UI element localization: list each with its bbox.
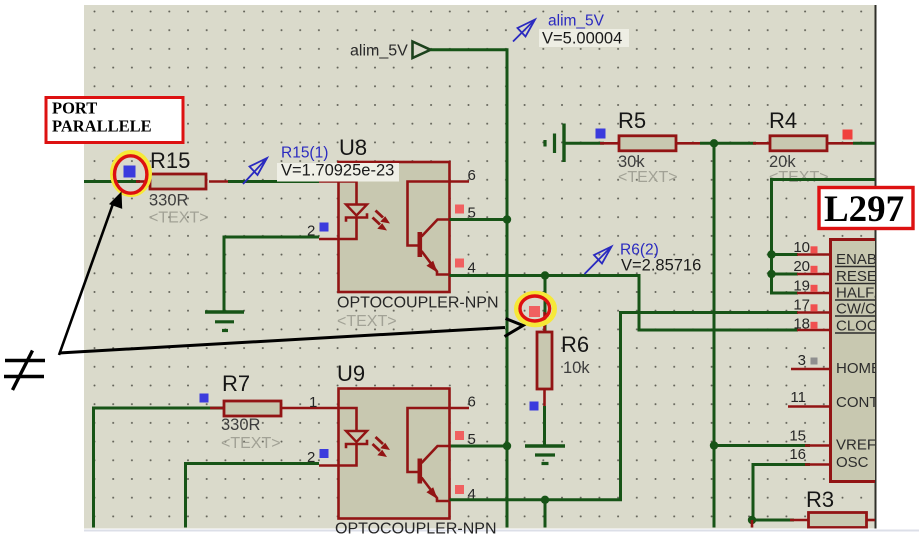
svg-text:11: 11 xyxy=(790,389,806,406)
probe arrow R15(1) xyxy=(243,158,267,184)
resistor R7 xyxy=(200,371,320,452)
pin stub below R3 node xyxy=(751,520,754,528)
svg-text:10: 10 xyxy=(793,239,810,256)
annotation circle at R6 pin xyxy=(517,293,555,325)
svg-text:VREF: VREF xyxy=(836,437,876,454)
resistor R5 xyxy=(596,108,701,186)
junction pin10 xyxy=(767,250,775,258)
svg-text:R4: R4 xyxy=(769,108,797,133)
junction pin20 xyxy=(767,270,775,278)
junction U8 pin5 / alim vertical xyxy=(503,215,511,223)
probe arrow alim_5V xyxy=(513,20,535,42)
svg-text:330R: 330R xyxy=(221,416,261,434)
svg-text:R5: R5 xyxy=(618,108,646,133)
svg-text:19: 19 xyxy=(793,278,810,295)
svg-text:alim_5V: alim_5V xyxy=(350,43,408,60)
junction R5/R4 xyxy=(710,139,718,147)
wire bottom stub xyxy=(544,500,547,528)
svg-text:PORT: PORT xyxy=(52,99,97,118)
annotation box L297 xyxy=(819,188,913,231)
resistor R4 xyxy=(753,108,853,186)
resistor R3 xyxy=(790,487,875,528)
svg-text:OPTOCOUPLER-NPN: OPTOCOUPLER-NPN xyxy=(337,295,499,312)
ground-left at R5 xyxy=(545,124,564,163)
optocoupler U9 xyxy=(307,389,476,519)
svg-text:OSC: OSC xyxy=(836,454,869,471)
wire pin20 branch xyxy=(772,273,799,276)
annotation box PORT PARALLELE xyxy=(46,98,183,143)
svg-text:U8: U8 xyxy=(339,135,367,160)
wire R7 left xyxy=(94,408,225,528)
svg-text:R15: R15 xyxy=(150,148,190,173)
svg-text:3: 3 xyxy=(798,352,806,369)
wire alim_5V top horizontal xyxy=(431,48,509,51)
svg-text:10k: 10k xyxy=(563,359,590,377)
junction VREF xyxy=(710,441,718,449)
resistor R6 xyxy=(529,306,590,412)
svg-text:<TEXT>: <TEXT> xyxy=(337,313,397,330)
canvas right border xyxy=(875,5,877,529)
svg-text:15: 15 xyxy=(789,428,806,445)
svg-text:HOME: HOME xyxy=(836,360,881,377)
L297 pin stubs xyxy=(788,255,829,465)
annotation arrow to R6 circle xyxy=(59,319,523,354)
wire R6 bottom to ground xyxy=(543,406,546,445)
svg-text:R15(1): R15(1) xyxy=(281,145,328,162)
svg-text:18: 18 xyxy=(793,316,810,333)
annotation not-equal symbol xyxy=(4,351,45,391)
svg-text:<TEXT>: <TEXT> xyxy=(769,169,829,186)
optocoupler U8 xyxy=(307,162,476,292)
wire ground to R5 xyxy=(564,142,604,145)
svg-text:330R: 330R xyxy=(149,192,189,210)
svg-text:20: 20 xyxy=(793,258,810,275)
wire alim_5V vertical x=507 xyxy=(506,50,509,528)
wire U9 pin2 down xyxy=(186,464,320,528)
wire pin10 branch xyxy=(772,253,799,256)
wire R4 right xyxy=(853,142,875,145)
svg-text:<TEXT>: <TEXT> xyxy=(221,435,281,452)
svg-text:16: 16 xyxy=(789,446,806,463)
ground under U8 pin2 xyxy=(205,312,244,331)
svg-text:L297: L297 xyxy=(824,189,904,230)
svg-text:V=2.85716: V=2.85716 xyxy=(621,257,701,275)
annotation arrow to R15 circle xyxy=(59,192,122,356)
svg-text:V=5.00004: V=5.00004 xyxy=(542,30,622,48)
wire vertical x=714 xyxy=(713,143,716,527)
svg-text:<TEXT>: <TEXT> xyxy=(618,169,678,186)
wire R5 to R4 xyxy=(700,142,756,145)
junction bottom branch xyxy=(541,496,549,504)
annotation circle at R15 pin xyxy=(113,153,150,195)
svg-text:PARALLELE: PARALLELE xyxy=(52,117,152,136)
wire OSC pin16 to R3 xyxy=(753,465,810,521)
junction R3 node xyxy=(748,516,756,524)
resistor R15 xyxy=(124,148,229,227)
junction R6 top xyxy=(541,271,549,279)
wire R15 to U8 pin1 xyxy=(228,180,319,183)
wire R15 left xyxy=(84,180,140,183)
ground under R6 xyxy=(525,446,565,464)
svg-text:R7: R7 xyxy=(222,371,250,396)
svg-text:R6: R6 xyxy=(561,332,589,357)
wire U8 pin4 run to CLOCK xyxy=(450,276,799,331)
svg-text:alim_5V: alim_5V xyxy=(548,13,605,30)
IC L297 xyxy=(788,239,915,482)
wire U9 pin5 to node xyxy=(450,445,508,448)
wire U9 pin4 run to CW xyxy=(450,313,799,500)
wire R3 left xyxy=(752,519,794,522)
svg-text:V=1.70925e-23: V=1.70925e-23 xyxy=(281,162,394,180)
svg-text:OPTOCOUPLER-NPN: OPTOCOUPLER-NPN xyxy=(335,521,497,535)
wire U8 pin5 to node xyxy=(450,218,508,221)
probe arrow R6(2) xyxy=(585,247,612,275)
junction U9 pin5 / vertical xyxy=(503,442,511,450)
wire top-right into L297 column xyxy=(772,180,876,294)
wire R6 top xyxy=(544,276,547,332)
window bottom edge xyxy=(84,530,919,532)
svg-text:<TEXT>: <TEXT> xyxy=(149,210,209,227)
wire VREF pin15 xyxy=(714,444,810,447)
svg-text:U9: U9 xyxy=(337,361,365,386)
L297 pin squares xyxy=(811,246,818,253)
svg-text:R3: R3 xyxy=(806,487,834,512)
svg-text:17: 17 xyxy=(793,297,810,314)
wire U8 pin2 to ground xyxy=(224,237,319,311)
power terminal alim_5V xyxy=(413,42,431,59)
